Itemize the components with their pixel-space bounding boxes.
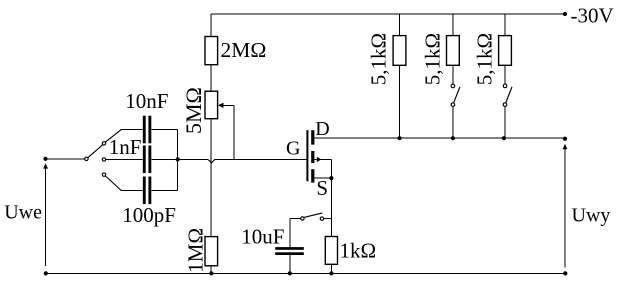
node 10uF bottom dot (288, 271, 292, 275)
svg-text:G: G (286, 138, 300, 160)
svg-text:-30V: -30V (571, 3, 614, 27)
svg-text:1MΩ: 1MΩ (184, 228, 208, 273)
svg-text:10uF: 10uF (241, 224, 284, 248)
switch S1 pole circle (85, 157, 88, 160)
switch S1 contact top circle (102, 142, 105, 145)
svg-text:5,1kΩ: 5,1kΩ (472, 33, 496, 85)
node input dot (43, 157, 47, 161)
wire gate line right of hop (215, 158, 307, 160)
node -30V supply dot (563, 12, 567, 16)
wire 1nF leads (106, 158, 176, 160)
switch S1 arm (88, 145, 103, 158)
capacitor 10uF plates (275, 247, 304, 250)
wire 1M bottom lead (210, 266, 212, 273)
resistor 1k body (325, 237, 337, 265)
node drain junction dot #2 (451, 136, 455, 140)
switch S3 arm (506, 87, 512, 103)
wire pot wiper to gate line (223, 105, 234, 159)
switch S4 right circle (320, 217, 323, 220)
svg-text:1nF: 1nF (109, 135, 142, 159)
node 1k bottom dot (329, 271, 333, 275)
node capacitor bus dot (176, 157, 180, 161)
wire 5,1k #2 leads (452, 14, 454, 138)
wire pot down through gate line to 1M (210, 119, 212, 237)
wire drain line (314, 137, 565, 139)
svg-text:2MΩ: 2MΩ (221, 38, 267, 62)
node source junction dot (329, 176, 333, 180)
resistor 5,1k #2 body (447, 36, 460, 66)
capacitor 1nF plates (143, 146, 146, 174)
resistor 5,1k #1 body (393, 36, 406, 66)
wire source stub (314, 177, 331, 179)
transistor T1 channel segment top (311, 130, 314, 144)
node drain junction dot #1 (397, 136, 401, 140)
switch S1 contact mid circle (102, 158, 105, 161)
resistor 1M body (205, 237, 218, 266)
wire Uwe vertical (45, 168, 47, 266)
svg-text:D: D (315, 118, 329, 140)
potentiometer 5M wiper arrowhead (218, 103, 224, 108)
node drain right dot (563, 137, 567, 141)
switch S4 arm (304, 213, 323, 218)
wire crossover hop (208, 160, 214, 163)
svg-text:5,1kΩ: 5,1kΩ (420, 33, 444, 85)
capacitor 100pF plates (143, 177, 146, 205)
wire 10nF horizontal leads (121, 129, 178, 131)
transistor T1 channel segment bottom (311, 169, 314, 182)
svg-text:1kΩ: 1kΩ (340, 239, 377, 263)
switch S3 top circle (503, 84, 507, 88)
wire top supply rail (211, 13, 565, 15)
Uwy voltage arrowhead (563, 144, 568, 149)
wire 1k bottom lead (330, 264, 332, 273)
wire gate line left of hop (178, 158, 209, 160)
wire 2M bottom lead to pot (210, 65, 212, 92)
potentiometer 5M body (205, 91, 218, 119)
wire 10nF diagonal lead (105, 130, 121, 142)
wire 100pF diagonal lead (105, 176, 121, 190)
wire capacitor bus (177, 130, 179, 191)
wire bypass switch to 10uF (290, 219, 301, 247)
node bottom-left dot (44, 271, 48, 275)
resistor 2M body (205, 37, 218, 65)
svg-text:5MΩ: 5MΩ (181, 87, 206, 134)
Uwe voltage arrowhead (43, 163, 48, 168)
switch S4 left circle (301, 217, 304, 220)
wire 5,1k #1 leads (399, 14, 401, 138)
svg-text:S: S (316, 176, 328, 200)
wire Uwy vertical (564, 149, 566, 268)
svg-text:100pF: 100pF (122, 203, 176, 227)
node drain junction dot #3 (502, 136, 506, 140)
wire 100pF horizontal leads (121, 189, 178, 191)
svg-text:Uwe: Uwe (4, 201, 42, 223)
transistor T1 bulk arrowhead (317, 157, 322, 162)
switch S2 arm (454, 87, 460, 103)
wire 2M top lead (210, 14, 212, 37)
wire 10uF bottom lead (289, 255, 291, 273)
wire bottom rail (46, 272, 566, 274)
resistor 5,1k #3 body (499, 36, 512, 66)
wire bypass switch tap (324, 218, 332, 220)
switch S2 bottom circle (451, 103, 455, 107)
capacitor 10nF plates (143, 116, 146, 144)
switch S2 top circle (451, 84, 455, 88)
wire bulk stub and down to source (314, 159, 331, 178)
wire source to 1k (330, 178, 332, 236)
svg-text:Uwy: Uwy (572, 204, 611, 226)
wire input to selector pole (48, 158, 85, 160)
wire 5,1k #3 leads (504, 14, 506, 138)
svg-text:5,1kΩ: 5,1kΩ (366, 33, 390, 85)
svg-text:10nF: 10nF (125, 89, 168, 113)
transistor T1 channel segment mid (311, 151, 314, 163)
switch S3 bottom circle (503, 103, 507, 107)
transistor T1 gate bar (306, 130, 308, 181)
node bottom-right dot (563, 271, 567, 275)
node 1M bottom dot (209, 271, 213, 275)
switch S1 contact bottom circle (102, 173, 105, 176)
